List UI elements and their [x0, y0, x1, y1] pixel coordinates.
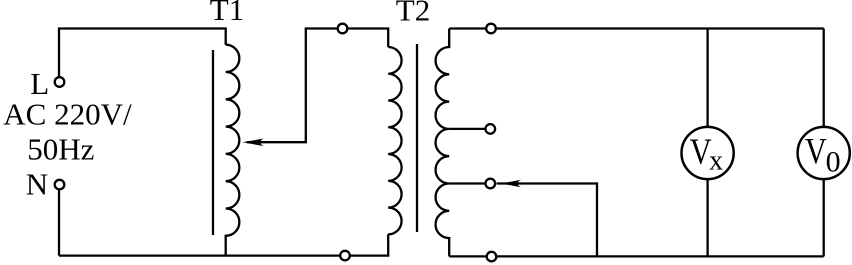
svg-text:AC 220V/: AC 220V/ [3, 96, 132, 131]
svg-text:T2: T2 [396, 0, 430, 27]
svg-text:x: x [709, 146, 723, 177]
svg-text:N: N [26, 167, 48, 202]
svg-text:V: V [805, 132, 827, 172]
svg-text:50Hz: 50Hz [27, 132, 94, 167]
svg-text:T1: T1 [210, 0, 244, 27]
svg-text:0: 0 [826, 145, 841, 178]
